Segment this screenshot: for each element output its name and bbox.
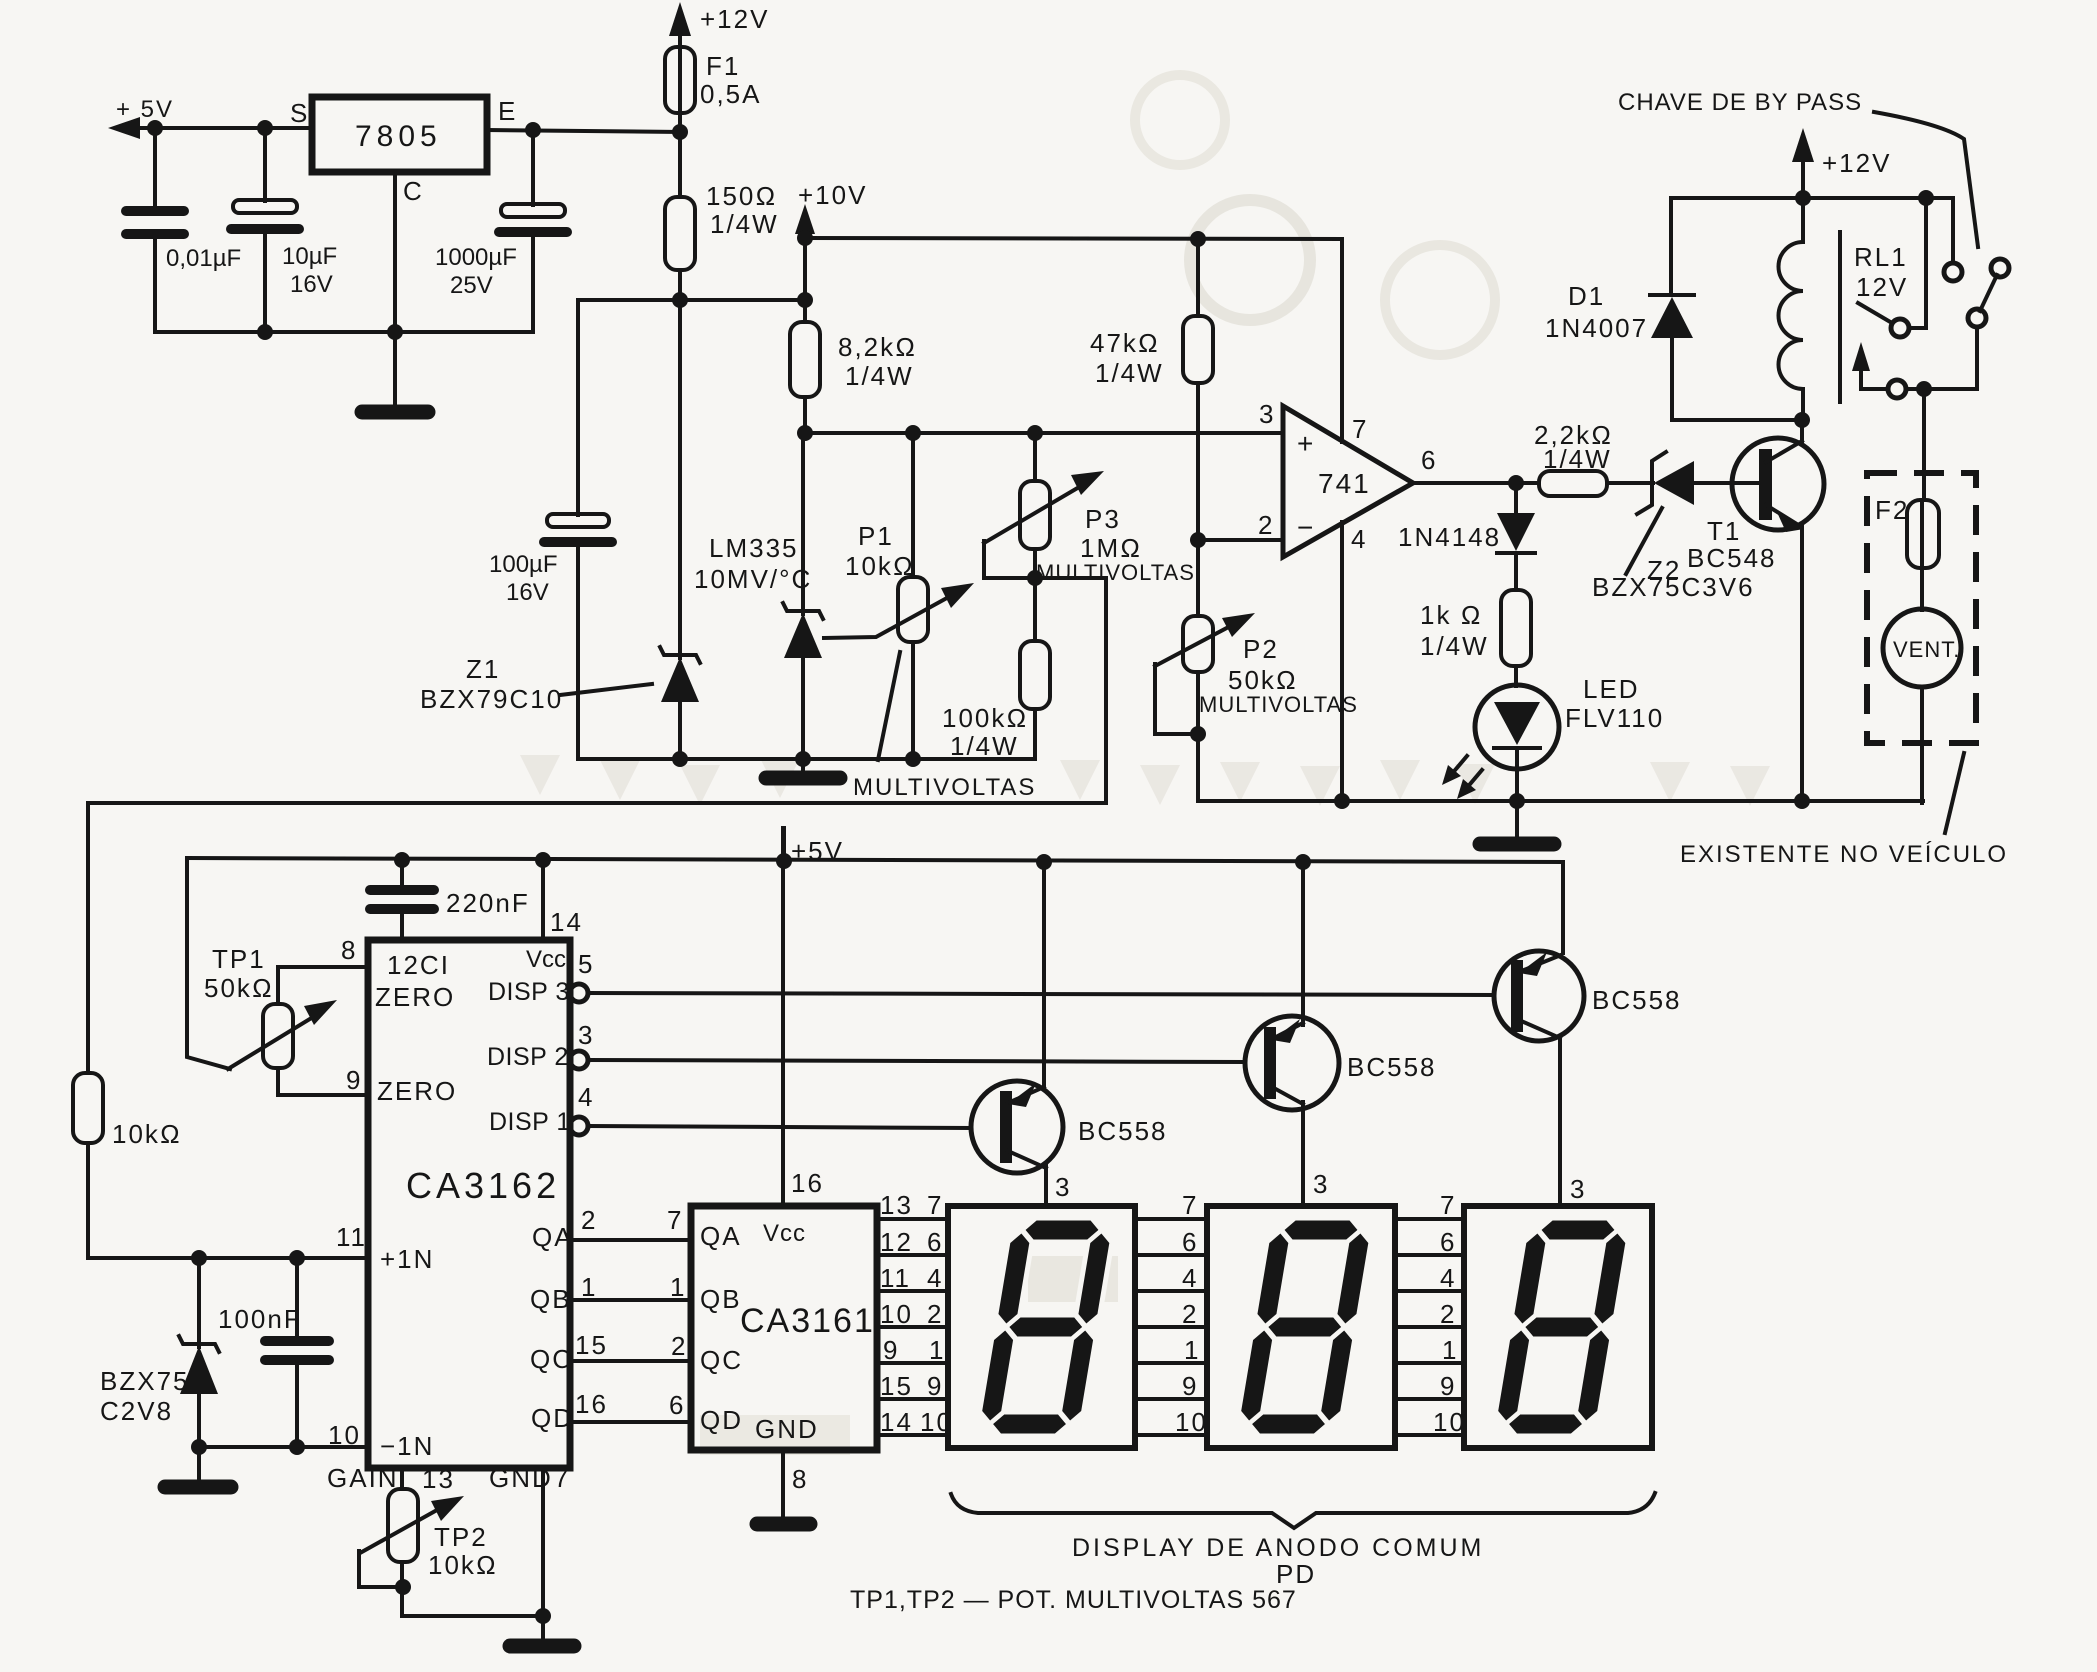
svg-text:S: S <box>290 98 309 128</box>
node +12V arrow top <box>669 2 769 47</box>
relay RL1 contact arm <box>1858 198 1926 337</box>
node pin7 gain <box>535 1608 551 1624</box>
svg-text:4: 4 <box>1351 524 1367 554</box>
node +10V left <box>797 230 813 246</box>
svg-text:0,01µF: 0,01µF <box>166 245 241 272</box>
node T1 emitter gnd <box>1794 793 1810 809</box>
node 100nF tap <box>289 1250 305 1266</box>
svg-text:10kΩ: 10kΩ <box>428 1550 498 1580</box>
svg-text:DISP 2: DISP 2 <box>487 1043 569 1071</box>
svg-text:741: 741 <box>1318 468 1371 499</box>
svg-text:Vcc: Vcc <box>526 946 566 973</box>
capacitor C3 1000uF 25V <box>435 130 567 332</box>
node pin4 gnd <box>1334 793 1350 809</box>
svg-text:F1: F1 <box>706 51 740 81</box>
svg-text:11: 11 <box>336 1222 367 1252</box>
svg-text:7: 7 <box>667 1205 683 1235</box>
svg-text:2: 2 <box>1440 1299 1456 1329</box>
node pin10 100nF <box>289 1439 305 1455</box>
node 150R bottom junction <box>672 292 688 308</box>
resistor R5 47k 1/4W <box>1090 239 1213 616</box>
svg-text:TP1: TP1 <box>212 944 266 974</box>
resistor R7 2,2k 1/4W <box>1534 420 1653 496</box>
svg-text:GAIN: GAIN <box>327 1463 399 1493</box>
svg-text:ZERO: ZERO <box>377 1076 457 1106</box>
node +10V arrow <box>795 180 867 238</box>
wire BC558c collector <box>1558 1036 1562 1206</box>
svg-text:6: 6 <box>1182 1227 1198 1257</box>
svg-text:15: 15 <box>575 1330 608 1360</box>
svg-text:EXISTENTE NO VEÍCULO: EXISTENTE NO VEÍCULO <box>1680 841 2008 868</box>
node rail 7805 C <box>387 324 403 340</box>
box existente no veiculo dashed <box>1867 473 1976 743</box>
svg-text:1000µF: 1000µF <box>435 244 517 271</box>
node rail C2 <box>257 324 273 340</box>
diode D2 1N4148 <box>1398 483 1535 590</box>
svg-text:100µF: 100µF <box>489 551 558 578</box>
svg-text:14: 14 <box>550 907 583 937</box>
node relay rail coil <box>1795 190 1811 206</box>
wire pin4 to ground rail <box>1340 522 1344 801</box>
op-amp U1 741 <box>1258 399 1437 557</box>
zener Z3 BZX75 C2V8 <box>100 1258 219 1447</box>
node pin10 gnd tap <box>191 1439 207 1455</box>
wire +10V to 8,2k <box>803 238 807 322</box>
wire noninverting rail y433 <box>805 431 1283 435</box>
svg-text:Z1: Z1 <box>466 654 500 684</box>
wire 150R node horizontal <box>578 298 805 302</box>
wire CA3161 gnd stub <box>781 1450 785 1516</box>
svg-text:VENT.: VENT. <box>1893 637 1960 662</box>
svg-text:6: 6 <box>927 1227 943 1257</box>
svg-text:1N4007: 1N4007 <box>1545 313 1648 343</box>
brace displays <box>951 1493 1655 1528</box>
svg-text:MULTIVOLTAS: MULTIVOLTAS <box>853 774 1036 801</box>
svg-text:47kΩ: 47kΩ <box>1090 328 1160 358</box>
diode D1 1N4007 <box>1545 198 1802 420</box>
node F1 / 7805 E <box>672 124 688 140</box>
IC CA3161 <box>667 1168 877 1494</box>
node rail BC558a emitter <box>1036 854 1052 870</box>
wire supply bottom rail <box>156 330 533 334</box>
wire +12V relay rail <box>1671 198 1953 263</box>
svg-text:10: 10 <box>1175 1407 1208 1437</box>
svg-text:9: 9 <box>346 1065 362 1095</box>
wire 150R bottom <box>678 270 682 300</box>
svg-text:13: 13 <box>422 1464 455 1494</box>
wire BC558b collector <box>1301 1102 1305 1206</box>
svg-text:D1: D1 <box>1568 281 1605 311</box>
potentiometer P1 10k <box>824 433 974 760</box>
node gnd Z1 <box>672 751 688 767</box>
svg-text:LM335: LM335 <box>709 533 799 563</box>
svg-text:3: 3 <box>1259 399 1275 429</box>
svg-text:1: 1 <box>670 1272 686 1302</box>
node BZX75 tap <box>191 1250 207 1266</box>
svg-text:4: 4 <box>578 1082 594 1112</box>
node rail 8,2k <box>797 425 813 441</box>
node junction C2 <box>257 120 273 136</box>
svg-text:QA: QA <box>532 1222 574 1252</box>
svg-text:1N4148: 1N4148 <box>1398 522 1501 552</box>
wire pin14 stub <box>541 860 545 940</box>
wire pin2 <box>1198 538 1283 542</box>
resistor R3 100k 1/4W <box>942 578 1050 761</box>
svg-text:25V: 25V <box>450 272 493 299</box>
wire CA3161 Vcc stub <box>781 828 785 1206</box>
svg-text:1/4W: 1/4W <box>1420 631 1489 661</box>
svg-text:TP1,TP2 — POT. MULTIVOLTAS 5: TP1,TP2 — POT. MULTIVOLTAS 567 <box>850 1586 1297 1614</box>
svg-text:1k Ω: 1k Ω <box>1420 600 1483 630</box>
svg-text:13: 13 <box>880 1190 913 1220</box>
node coil bottom / T1 collector <box>1794 412 1810 428</box>
wire 7805 C lead <box>393 172 397 408</box>
svg-text:P2: P2 <box>1243 634 1279 664</box>
svg-text:+1N: +1N <box>380 1244 434 1274</box>
svg-text:7: 7 <box>554 1463 570 1493</box>
svg-text:1: 1 <box>1442 1335 1458 1365</box>
wire sensor tap to CA3162 <box>88 578 1106 1073</box>
svg-text:Vcc: Vcc <box>763 1220 806 1247</box>
svg-text:3: 3 <box>578 1020 594 1050</box>
transistor Q3 BC558 disp3 <box>1494 951 1682 1041</box>
node +5V label <box>784 828 844 866</box>
capacitor C4 100uF 16V <box>489 514 612 759</box>
svg-text:7805: 7805 <box>355 120 442 153</box>
svg-text:4: 4 <box>1182 1263 1198 1293</box>
svg-text:BC558: BC558 <box>1078 1116 1168 1146</box>
wire +5V rail <box>187 858 1563 953</box>
svg-text:+12V: +12V <box>700 4 769 34</box>
resistor R6 1k 1/4W <box>1420 590 1531 686</box>
svg-text:16: 16 <box>791 1168 824 1198</box>
regulator U 7805 <box>290 96 517 206</box>
resistor R1 150R 1/4W <box>665 181 779 270</box>
svg-text:2: 2 <box>927 1299 943 1329</box>
svg-text:15: 15 <box>880 1371 913 1401</box>
relay RL1 coil <box>1779 198 1909 420</box>
svg-text:FLV110: FLV110 <box>1565 703 1664 733</box>
ladder CA3161 to display1 <box>877 1190 953 1437</box>
svg-text:4: 4 <box>927 1263 943 1293</box>
node rail 220nF <box>394 852 410 868</box>
IC CA3162 <box>327 935 608 1494</box>
switch bypass chave <box>1944 259 2009 327</box>
svg-text:5: 5 <box>578 949 594 979</box>
svg-text:50kΩ: 50kΩ <box>1228 665 1298 695</box>
node 7805 E junction <box>525 122 541 138</box>
wire gain to gnd pin7 <box>402 1614 543 1618</box>
svg-text:+10V: +10V <box>798 180 867 210</box>
node gnd P1 <box>905 751 921 767</box>
svg-text:16V: 16V <box>290 271 333 298</box>
potentiometer P3 1M multivoltas <box>984 433 1195 585</box>
svg-text:1: 1 <box>929 1335 945 1365</box>
svg-text:1/4W: 1/4W <box>950 731 1019 761</box>
svg-text:3: 3 <box>1570 1174 1586 1204</box>
svg-text:BZX75C3V6: BZX75C3V6 <box>1592 572 1755 602</box>
capacitor C1 0,01uF <box>126 128 241 332</box>
svg-text:QC: QC <box>700 1345 743 1375</box>
wire fan feed to F2 <box>1922 389 1926 500</box>
capacitor C2 10uF 16V <box>231 128 337 332</box>
node +12V arrow relay <box>1792 128 1891 198</box>
svg-text:GND: GND <box>755 1414 819 1444</box>
svg-text:ZERO: ZERO <box>375 982 455 1012</box>
wire 100uF branch <box>576 300 580 515</box>
svg-text:7: 7 <box>1352 414 1368 444</box>
node inverting input <box>1190 532 1206 548</box>
svg-text:10: 10 <box>880 1299 913 1329</box>
fuse F2 <box>1875 495 1939 568</box>
svg-text:16: 16 <box>575 1389 608 1419</box>
svg-text:CHAVE DE BY PASS: CHAVE DE BY PASS <box>1618 89 1862 116</box>
svg-text:BZX75: BZX75 <box>100 1366 190 1396</box>
svg-text:9: 9 <box>1440 1371 1456 1401</box>
resistor R2 8,2k 1/4W <box>790 322 917 397</box>
transistor Q2 BC558 disp2 <box>1245 1016 1437 1110</box>
svg-text:QB: QB <box>530 1284 572 1314</box>
wire veiculo pointer <box>1945 753 1964 833</box>
svg-text:50kΩ: 50kΩ <box>204 973 274 1003</box>
wire T1 collector up <box>1800 420 1804 443</box>
svg-text:2: 2 <box>1182 1299 1198 1329</box>
svg-text:11: 11 <box>880 1263 911 1293</box>
wire opamp ground rail <box>1198 799 1923 803</box>
svg-text:7: 7 <box>927 1190 943 1220</box>
svg-text:1/4W: 1/4W <box>1543 444 1612 474</box>
svg-text:14: 14 <box>880 1407 913 1437</box>
ground analog <box>766 759 840 778</box>
svg-text:MULTIVOLTAS: MULTIVOLTAS <box>1199 692 1358 717</box>
svg-text:F2: F2 <box>1875 495 1909 525</box>
wire T1 emitter down <box>1800 524 1804 801</box>
wire QB <box>570 1298 691 1302</box>
wire +5V line to 7805 S <box>136 126 312 130</box>
svg-text:1: 1 <box>1184 1335 1200 1365</box>
svg-text:8: 8 <box>341 935 357 965</box>
svg-text:8,2kΩ: 8,2kΩ <box>838 332 917 362</box>
svg-text:+ 5V: + 5V <box>116 96 174 123</box>
svg-text:DISP 3: DISP 3 <box>488 978 570 1006</box>
svg-text:2: 2 <box>1258 510 1274 540</box>
svg-text:1/4W: 1/4W <box>1095 358 1164 388</box>
zener Z2 BZX75C3V6 <box>1592 452 1759 602</box>
ground input <box>165 1447 231 1487</box>
svg-text:+12V: +12V <box>1822 148 1891 178</box>
svg-text:1MΩ: 1MΩ <box>1080 533 1142 563</box>
node gnd LM335 <box>795 751 811 767</box>
wire F2 to fan <box>1920 568 1924 610</box>
transistor Q1 BC558 disp1 <box>971 1081 1168 1173</box>
svg-text:2: 2 <box>581 1205 597 1235</box>
node LED ground <box>1509 793 1525 809</box>
svg-text:6: 6 <box>1421 445 1437 475</box>
zener Z1 BZX79C10 <box>420 300 700 759</box>
svg-text:BC548: BC548 <box>1687 543 1777 573</box>
wire analog ground rail <box>578 757 1035 761</box>
svg-text:−: − <box>1297 512 1315 543</box>
ground 7805 <box>362 405 428 420</box>
svg-text:8: 8 <box>792 1464 808 1494</box>
svg-text:P1: P1 <box>858 521 894 551</box>
node rail pin14 <box>535 852 551 868</box>
svg-text:QD: QD <box>700 1405 743 1435</box>
svg-text:9: 9 <box>927 1371 943 1401</box>
svg-text:QA: QA <box>700 1221 742 1251</box>
svg-text:LED: LED <box>1583 674 1640 704</box>
svg-text:6: 6 <box>1440 1227 1456 1257</box>
wire BC558a collector <box>1044 1166 1048 1206</box>
wire 8,2k bottom to rail <box>803 397 807 433</box>
node relay rail contact <box>1918 190 1934 206</box>
svg-text:1/4W: 1/4W <box>710 209 779 239</box>
svg-text:TP2: TP2 <box>434 1522 488 1552</box>
svg-text:9: 9 <box>1182 1371 1198 1401</box>
svg-text:7: 7 <box>1182 1190 1198 1220</box>
svg-text:QC: QC <box>530 1344 573 1374</box>
ground LED <box>1480 801 1554 844</box>
wire DISP2 to BC558b base <box>588 1060 1245 1062</box>
svg-text:1: 1 <box>581 1272 597 1302</box>
node P3 wiper junction <box>1027 570 1043 586</box>
svg-text:DISP 1: DISP 1 <box>489 1108 571 1136</box>
svg-text:100kΩ: 100kΩ <box>942 703 1028 733</box>
svg-text:BZX79C10: BZX79C10 <box>420 684 563 714</box>
svg-text:1/4W: 1/4W <box>845 361 914 391</box>
node junction C1 <box>147 120 163 136</box>
svg-text:4: 4 <box>1440 1263 1456 1293</box>
svg-text:12V: 12V <box>1856 272 1908 302</box>
wire fan to ground rail <box>1920 687 1924 803</box>
display PD2 seven segment <box>1207 1206 1395 1448</box>
svg-text:10µF: 10µF <box>282 243 337 270</box>
fan VENT motor <box>1883 609 1961 687</box>
svg-text:220nF: 220nF <box>446 888 530 918</box>
wire DISP3 to BC558c base <box>588 993 1494 995</box>
wire QA <box>570 1238 691 1242</box>
node fan feed <box>1916 381 1932 397</box>
pin DISP2 circle <box>570 1051 588 1069</box>
ladder display1 to display2 <box>1135 1190 1208 1437</box>
svg-text:QB: QB <box>700 1284 742 1314</box>
svg-text:16V: 16V <box>506 579 549 606</box>
svg-text:PD: PD <box>1276 1559 1316 1589</box>
ground CA3162 <box>510 1639 574 1654</box>
pin DISP1 circle <box>570 1117 588 1135</box>
trimpot TP1 50k <box>204 944 368 1095</box>
svg-text:E: E <box>498 96 517 126</box>
sensor U2 LM335 <box>694 433 823 759</box>
svg-text:RL1: RL1 <box>1854 242 1908 272</box>
svg-text:CA3162: CA3162 <box>406 1165 560 1206</box>
wire pin7 gnd <box>541 1468 545 1640</box>
svg-text:DISPLAY DE ANODO COMUM: DISPLAY DE ANODO COMUM <box>1072 1534 1484 1562</box>
trimpot TP2 10k gain <box>359 1468 498 1616</box>
transistor T1 BC548 <box>1687 438 1824 573</box>
svg-text:MULTIVOLTAS: MULTIVOLTAS <box>1036 560 1195 585</box>
wire +10V rail <box>805 238 1342 442</box>
svg-text:P3: P3 <box>1085 504 1121 534</box>
svg-text:10: 10 <box>1433 1407 1466 1437</box>
node +5V output arrow <box>108 96 174 139</box>
svg-text:12CI: 12CI <box>387 950 450 980</box>
wire DISP1 to BC558a base <box>588 1126 971 1128</box>
potentiometer P2 50k multivoltas <box>1155 613 1358 801</box>
svg-text:6: 6 <box>669 1390 685 1420</box>
svg-text:100nF: 100nF <box>218 1304 302 1334</box>
node rail P1 <box>905 425 921 441</box>
display PD1 seven segment <box>948 1206 1135 1448</box>
wire input line to pin11 <box>88 1256 368 1260</box>
pin DISP3 circle <box>570 984 588 1002</box>
svg-text:10kΩ: 10kΩ <box>112 1119 182 1149</box>
capacitor C5 220nF <box>370 860 530 940</box>
wire chave pointer <box>1874 112 1978 247</box>
svg-text:CA3161: CA3161 <box>740 1302 875 1340</box>
wire BC558a emitter <box>1042 862 1046 1089</box>
svg-text:T1: T1 <box>1707 516 1741 546</box>
svg-text:7: 7 <box>1440 1190 1456 1220</box>
svg-text:10MV/°C: 10MV/°C <box>694 564 812 594</box>
ground CA3161 <box>757 1517 810 1532</box>
svg-text:150Ω: 150Ω <box>706 181 777 211</box>
svg-text:+5V: +5V <box>791 836 844 866</box>
svg-text:10kΩ: 10kΩ <box>845 551 915 581</box>
node rail +5V stub <box>776 853 792 869</box>
resistor R4 10k input <box>73 1073 182 1258</box>
svg-text:BC558: BC558 <box>1347 1052 1437 1082</box>
node 8,2k top <box>797 292 813 308</box>
wire rail to TP1 wiper <box>187 858 230 1069</box>
wire F1 to 150R <box>678 113 682 197</box>
LED FLV110 <box>1442 674 1664 801</box>
node rail P3 <box>1027 425 1043 441</box>
svg-text:C: C <box>403 176 424 206</box>
svg-text:0,5A: 0,5A <box>700 79 762 109</box>
wire pin10 <box>199 1445 368 1449</box>
wire QD <box>570 1420 691 1424</box>
fuse F1 0,5A <box>665 47 762 113</box>
svg-text:−1N: −1N <box>380 1431 434 1461</box>
display PD3 seven segment <box>1464 1206 1652 1448</box>
svg-text:3: 3 <box>1055 1172 1071 1202</box>
svg-text:BC558: BC558 <box>1592 985 1682 1015</box>
svg-text:12: 12 <box>880 1227 913 1257</box>
ladder display2 to display3 <box>1395 1190 1466 1437</box>
node +10V 47k tap <box>1190 231 1206 247</box>
wire pin6 output <box>1413 481 1539 485</box>
svg-text:3: 3 <box>1313 1169 1329 1199</box>
svg-text:+: + <box>1297 428 1315 459</box>
scan ghost artifacts (decorative) <box>520 75 1770 1455</box>
relay RL1 throw contact arrow <box>1852 327 1977 398</box>
svg-text:C2V8: C2V8 <box>100 1396 173 1426</box>
capacitor C6 100nF <box>218 1258 329 1447</box>
node rail BC558b emitter <box>1295 854 1311 870</box>
wire BC558b emitter <box>1301 862 1305 1025</box>
svg-text:QD: QD <box>531 1403 574 1433</box>
svg-text:9: 9 <box>883 1335 899 1365</box>
wire 7805 E to F1 node <box>487 130 680 132</box>
node output junction <box>1508 475 1524 491</box>
wire QC <box>570 1359 691 1363</box>
svg-text:2: 2 <box>671 1331 687 1361</box>
